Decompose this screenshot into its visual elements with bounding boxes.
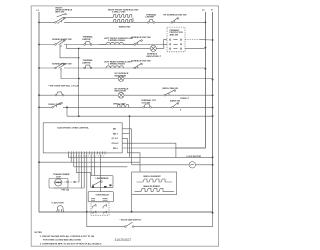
wire N bus [212,12,214,213]
svg-text:BROIL ELEMENT: BROIL ELEMENT [144,176,162,178]
wire box to L2 [185,47,205,50]
wire vertical x78.8 [78,48,80,116]
wire rung4 [39,94,213,96]
EOC right pins [122,129,176,172]
svg-text:INDICATOR: INDICATOR [115,90,127,93]
junction vertical x78.8 [78,78,80,80]
switch rung3 [55,63,66,71]
svg-text:BAKE ELEMENT: BAKE ELEMENT [144,185,161,188]
svg-text:* LATCH SW: * LATCH SW [51,202,64,205]
svg-text:NOTES: NOTES [34,232,42,234]
wire lock rung A [130,156,213,158]
limiter rung5 [143,104,152,108]
switch rung5 right [172,103,179,109]
wire elements box to rail [131,195,133,212]
wire L1 bus [39,12,213,212]
lamp surface indicator 2 [118,76,124,82]
resistor surface element lower [113,19,132,22]
svg-text:P/N 120: P/N 120 [62,190,70,192]
border frame [31,6,218,246]
limiter rung4 [55,92,64,96]
svg-text:LIMITER: LIMITER [82,39,91,41]
relay box line break [91,176,113,188]
switch rung3 right [134,63,143,68]
wire indicator branch rung3 [61,68,213,80]
switch oven light sw [52,102,63,108]
wire surface indicator branch [66,44,167,48]
resistor bake element [135,188,175,191]
wire transformer output [67,181,69,183]
switch surface unit sw rung2 [55,39,66,47]
svg-text:SURFACE UNIT SW: SURFACE UNIT SW [131,36,152,39]
motor lock motor [189,162,195,168]
switch right rear surface unit sw [55,17,66,24]
EOC electronic oven control box [43,123,122,153]
svg-text:OVEN LT: OVEN LT [180,98,190,100]
svg-text:INDICATOR LT: INDICATOR LT [147,55,162,58]
wire door rung [87,212,213,227]
wire transformer bottom [54,187,84,189]
wire L2 bus [176,12,206,148]
svg-text:120V: 120V [56,176,61,178]
svg-text:& WELL UNIT: & WELL UNIT [112,11,126,13]
relay box oven relay [88,192,113,202]
thermal limiter rung1 [148,20,155,24]
svg-text:BAKE UNIT: BAKE UNIT [119,25,131,28]
svg-text:BROIL UNIT: BROIL UNIT [114,104,127,106]
junction dot rail [86,211,88,213]
thermal limiter rung2 [84,42,92,46]
svg-text:2. COMPONENTS MFR. TO DO NOT O: 2. COMPONENTS MFR. TO DO NOT OPTION OF A… [40,242,102,245]
switch rung4 right [164,90,176,96]
svg-text:RD 6: RD 6 [113,148,119,150]
svg-text:BK: BK [113,129,117,131]
svg-text:LIMITER: LIMITER [82,62,91,64]
svg-text:BAKE SW: BAKE SW [170,99,181,102]
junction dots N [212,39,214,214]
wire rung5 [39,106,213,108]
wire pin drops [69,154,130,211]
wire rung3 [39,67,205,70]
wire vertical x131 [131,129,133,165]
svg-text:1. CIRCUIT SHOWN WITH ALL CONT: 1. CIRCUIT SHOWN WITH ALL CONTROLS OFF T… [40,235,95,238]
wire rung2 [39,40,167,45]
wire horizontal y116.2 to N [67,115,213,117]
svg-text:OVEN RELAY: OVEN RELAY [96,193,110,196]
wire rung1 main [39,21,205,23]
svg-text:UNIT SW: UNIT SW [55,12,65,14]
elements box [132,172,177,195]
latch switch symbol [57,206,64,212]
transformer T1 [49,178,68,188]
svg-text:RF SURFACE UNIT SW: RF SURFACE UNIT SW [164,13,188,16]
svg-text:BR 2: BR 2 [113,133,119,135]
svg-text:LOCK MOTOR: LOCK MOTOR [187,156,202,158]
svg-text:OUT SW: OUT SW [142,102,151,104]
svg-text:BROIL PAN SW: BROIL PAN SW [163,87,179,90]
svg-text:2 SPEED 8 PASS: 2 SPEED 8 PASS [108,63,125,66]
wire L1 to transformer line [39,161,140,163]
wire box to N (dashed) [185,39,200,41]
thermal limiter rung3 [84,65,92,69]
switch upper blade [57,14,65,17]
resistor broil unit [117,105,130,108]
junction dots L1 [38,22,40,109]
switch rung1 right [171,18,179,24]
lamp oven indicator [118,92,124,98]
EOC bottom pins [69,151,105,154]
relay contacts dashed box [91,202,109,215]
svg-text:ELECTRONIC OVEN CONTROL: ELECTRONIC OVEN CONTROL [58,128,90,130]
resistor left front surface unit [106,42,124,44]
svg-text:* THE OVEN HTR WILL CYCLE: * THE OVEN HTR WILL CYCLE [48,86,79,88]
wire vertical x67 from rung5 [66,107,68,116]
wire vertical x175.9 lower [175,148,177,157]
label EOC pin codes [112,129,120,150]
svg-text:OVEN LT SW: OVEN LT SW [48,104,62,106]
wire lock rung B [132,164,213,166]
wire rung1 upper branch [65,17,113,19]
svg-text:LINE BREAK: LINE BREAK [96,177,109,180]
junction dots L2 [205,22,207,70]
svg-text:FOR OVEN CLOSED AND UNLOCKED: FOR OVEN CLOSED AND UNLOCKED [43,239,81,242]
dashed connector box top right [167,27,185,52]
resistor left rear surface unit [106,66,124,68]
svg-text:AND SW: AND SW [170,33,180,36]
svg-text:* DOOR JAM SWITCH: * DOOR JAM SWITCH [120,218,142,221]
svg-text:OR 4-2: OR 4-2 [112,142,120,145]
resistor surface element upper [113,15,132,18]
wire rung2 drop branch [60,45,79,57]
switch rung2 right [134,40,143,46]
svg-text:GY 4-1: GY 4-1 [112,137,119,140]
svg-text:2 SPEED 8 PASS: 2 SPEED 8 PASS [108,39,125,42]
svg-text:316254527: 316254527 [115,238,132,242]
svg-text:INDICATOR: INDICATOR [115,74,127,77]
svg-text:SURFACE UNIT SW: SURFACE UNIT SW [131,60,152,63]
switch door jam [125,222,134,227]
lamp surface indicator [150,45,156,51]
svg-text:SURFACE UNIT SW: SURFACE UNIT SW [52,62,73,65]
wire vertical x129.2 [129,116,131,157]
svg-text:SURFACE UNIT SW: SURFACE UNIT SW [52,38,73,41]
resistor broil element [137,179,173,182]
wire element join [132,18,134,23]
svg-text:LIMITER: LIMITER [146,17,155,19]
